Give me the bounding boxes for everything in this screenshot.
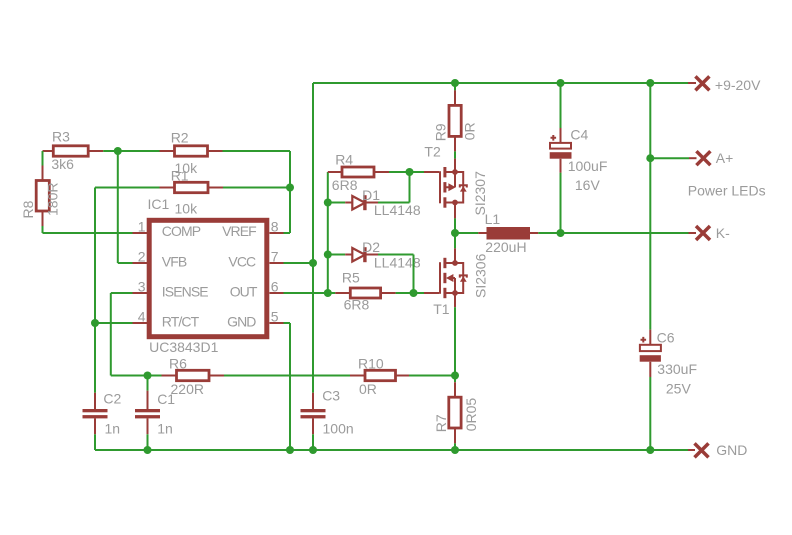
svg-text:0R: 0R — [461, 122, 477, 140]
junction dot R4-D1 gate node — [406, 168, 414, 176]
svg-text:5: 5 — [271, 309, 279, 325]
svg-text:1n: 1n — [157, 420, 173, 436]
svg-text:330uF: 330uF — [657, 361, 697, 377]
svg-text:D1: D1 — [362, 187, 380, 203]
svg-text:6: 6 — [271, 279, 279, 295]
junction dot VCC node — [309, 259, 317, 267]
junction dot T1 source R10 R7 — [451, 372, 459, 380]
wire net ISENSE pin 3 filter node — [111, 293, 162, 376]
svg-text:180R: 180R — [45, 183, 61, 216]
svg-text:A+: A+ — [716, 150, 734, 166]
svg-text:COMP: COMP — [162, 223, 201, 239]
wire net comp: R3/R8 corner and R8 bottom to pin 1 — [43, 151, 133, 233]
resistor R5 — [335, 288, 395, 298]
svg-text:2: 2 — [138, 249, 146, 265]
pin stub 8 VREF — [270, 232, 284, 234]
svg-text:RT/CT: RT/CT — [162, 314, 200, 330]
svg-text:6R8: 6R8 — [344, 296, 370, 312]
wire net C1 top to ISENSE filter node — [147, 376, 149, 391]
wire net from R3-R2 junction down to pin 2 VFB — [118, 151, 133, 263]
wire net R7 bottom to ground rail — [454, 443, 456, 450]
pin stub 1 COMP — [133, 232, 148, 234]
svg-text:C2: C2 — [103, 390, 121, 406]
svg-text:VFB: VFB — [162, 253, 187, 269]
svg-text:R7: R7 — [433, 414, 449, 432]
wire net R5 right to T1 gate — [396, 292, 424, 294]
pin stub 6 OUT — [270, 292, 284, 294]
junction dot R3-R2 — [114, 147, 122, 155]
wire net +V branch to A+ and C6 — [650, 83, 689, 330]
wire net T1 source down to R7 — [454, 307, 456, 382]
connector pad X4 GND — [688, 443, 709, 457]
wire net GND pin 5 down to rail — [284, 323, 291, 450]
svg-text:3: 3 — [138, 279, 146, 295]
diode D2 LL4148 — [345, 247, 378, 262]
resistor R9 — [449, 90, 461, 151]
transistor T2 SI2307 P-MOSFET — [440, 159, 467, 219]
junction dot rail at R7 — [451, 446, 459, 454]
svg-text:100n: 100n — [323, 420, 354, 436]
wire pin lead T2 gate — [424, 171, 439, 173]
wire net +V top rail — [313, 82, 688, 84]
wire net D1 cathode up to R4 right and T2 gate — [378, 172, 424, 203]
svg-text:1n: 1n — [105, 420, 121, 436]
svg-text:C6: C6 — [657, 330, 675, 346]
svg-text:6R8: 6R8 — [332, 177, 358, 193]
svg-text:UC3843D1: UC3843D1 — [149, 339, 218, 355]
wire net C4 bottom to K- — [560, 173, 562, 234]
svg-text:GND: GND — [716, 442, 747, 458]
pin stub 4 RT/CT — [133, 322, 148, 324]
svg-text:100uF: 100uF — [568, 158, 608, 174]
svg-text:C1: C1 — [157, 391, 175, 407]
junction dot rail at C6 — [646, 446, 654, 454]
svg-text:D2: D2 — [362, 239, 380, 255]
svg-text:7: 7 — [271, 249, 279, 265]
svg-text:ISENSE: ISENSE — [162, 284, 209, 300]
connector pad X3 K- — [689, 226, 711, 240]
resistor R3 — [43, 146, 104, 156]
wire net RT/CT node: R1 left down to pin 4 and C2 — [95, 188, 160, 393]
svg-text:R9: R9 — [432, 123, 448, 141]
svg-text:R2: R2 — [171, 130, 189, 146]
resistor R2 — [160, 146, 223, 156]
svg-text:4: 4 — [138, 309, 146, 325]
svg-text:T2: T2 — [424, 143, 441, 159]
svg-text:3k6: 3k6 — [51, 156, 74, 172]
wire net R9 to T2 source — [454, 151, 456, 158]
junction dot OUT row at R5 — [324, 289, 332, 297]
wire net R2 right to VREF vertical — [223, 151, 291, 233]
svg-text:8: 8 — [271, 219, 279, 235]
svg-text:R3: R3 — [52, 129, 70, 145]
wire net R6 right to R10 left — [224, 375, 350, 377]
resistor R7 — [449, 382, 461, 443]
wire net R10 right to T1 source node — [409, 375, 455, 377]
pin stub 7 VCC — [270, 262, 284, 264]
svg-text:SI2307: SI2307 — [472, 171, 488, 216]
svg-text:1: 1 — [138, 219, 146, 235]
svg-text:R1: R1 — [171, 168, 189, 184]
wire pin lead T1 gate — [424, 292, 439, 294]
junction dot OUT vertical at D1 — [324, 199, 332, 207]
junction dot mid node L1 — [451, 229, 459, 237]
capacitor C3 — [301, 393, 326, 435]
svg-text:0R05: 0R05 — [463, 398, 479, 432]
pin stub 5 GND — [270, 322, 284, 324]
svg-text:220R: 220R — [171, 381, 204, 397]
svg-text:R4: R4 — [335, 152, 353, 168]
diode D1 LL4148 — [345, 195, 378, 210]
pin stub 2 VFB — [133, 262, 148, 264]
svg-text:+9-20V: +9-20V — [715, 77, 761, 93]
wire net VCC pin 7 to +V drop — [284, 262, 314, 264]
inductor L1 — [478, 227, 538, 240]
junction dot top rail A+ branch — [646, 79, 654, 87]
junction dot rail at pin5 drop — [286, 446, 294, 454]
svg-text:LL4148: LL4148 — [374, 202, 421, 218]
svg-text:OUT: OUT — [230, 284, 258, 300]
wire net C1 bottom to ground rail — [147, 434, 149, 450]
resistor R6 — [162, 370, 225, 380]
wire net +V stub to R9 — [454, 83, 456, 90]
svg-text:Power LEDs: Power LEDs — [688, 182, 766, 198]
wire net +V branch to C4 — [560, 83, 562, 128]
capacitor C2 — [83, 393, 108, 435]
transistor T1 SI2306 N-MOSFET — [440, 248, 467, 307]
wire net +V left vertical drop to VCC and C3 — [312, 83, 314, 393]
wire net C6 bottom to ground rail — [649, 377, 651, 450]
junction dot A+ node — [646, 154, 654, 162]
svg-text:C4: C4 — [570, 127, 588, 143]
svg-text:220uH: 220uH — [485, 239, 526, 255]
junction dot rail at C1 — [144, 446, 152, 454]
junction dot rail at C3 — [309, 446, 317, 454]
wire net OUT pin 6 to gate network — [284, 172, 346, 293]
wire net comp node from R3 to R2 lead — [103, 150, 159, 152]
svg-text:K-: K- — [716, 225, 730, 241]
svg-text:T1: T1 — [433, 301, 450, 317]
junction dot K- at C4 — [557, 229, 565, 237]
svg-text:VREF: VREF — [222, 223, 256, 239]
resistor R4 — [328, 167, 389, 177]
svg-text:R8: R8 — [20, 200, 36, 218]
junction dot ISENSE node at C1 — [144, 372, 152, 380]
junction dot OUT vertical at D2 — [324, 251, 332, 259]
pin stub 3 ISENSE — [133, 292, 148, 294]
junction dot D2-R5 gate node — [410, 289, 418, 297]
wire net R1 right to VREF node — [223, 187, 290, 189]
svg-text:R5: R5 — [342, 269, 360, 285]
resistor R8 — [36, 166, 49, 227]
junction dot top rail C4 — [557, 79, 565, 87]
svg-text:16V: 16V — [575, 177, 601, 193]
wire net D2 cathode to T1 gate node — [378, 255, 414, 294]
junction dot top rail R9 — [451, 79, 459, 87]
svg-text:GND: GND — [227, 314, 256, 330]
wire net mid node between T2 and T1, to L1 — [455, 218, 478, 248]
junction dot RT/CT node — [91, 319, 99, 327]
connector pad X1 +9-20V — [688, 76, 709, 90]
resistor R1 — [160, 182, 224, 192]
wire net K- from L1 to pad — [538, 232, 688, 234]
wire net C2 bottom to ground rail — [94, 434, 96, 450]
connector pad X2 A+ — [689, 151, 710, 165]
svg-text:VCC: VCC — [228, 253, 256, 269]
capacitor C1 — [135, 391, 160, 435]
capacitor C4 polarized — [550, 128, 572, 173]
capacitor C6 polarized — [640, 330, 661, 377]
svg-text:25V: 25V — [666, 381, 692, 397]
svg-text:R6: R6 — [169, 356, 187, 372]
IC U1 box UC3843D1 — [149, 220, 267, 336]
svg-text:IC1: IC1 — [148, 196, 170, 212]
svg-text:R10: R10 — [358, 356, 384, 372]
svg-text:C3: C3 — [322, 387, 340, 403]
junction dot R1-VREF vertical — [286, 184, 294, 192]
svg-text:0R: 0R — [359, 381, 377, 397]
svg-text:L1: L1 — [485, 211, 501, 227]
wire net C3 bottom to ground rail — [312, 434, 314, 450]
svg-text:10k: 10k — [175, 201, 199, 217]
resistor R10 — [350, 370, 409, 380]
svg-text:SI2306: SI2306 — [473, 253, 489, 298]
wire net ground rail — [95, 449, 688, 451]
